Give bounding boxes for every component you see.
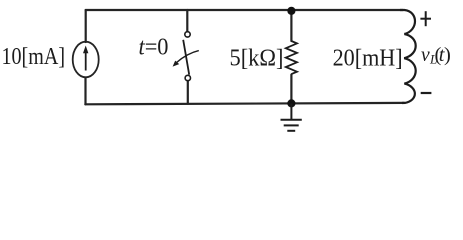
svg-text:10[mA]: 10[mA] [2,44,66,70]
resistor R1 zigzag [286,41,297,74]
minus sign [421,92,432,94]
junction dot bottom (node B) [287,99,295,107]
switch bottom terminal circle [185,75,190,80]
wire switch branch lower [187,81,189,104]
wire left branch lower [84,78,86,105]
switch actuation arrow arc [176,51,199,63]
inductor L1 coil [400,10,416,103]
svg-text:): ) [444,44,451,66]
wire switch branch upper [186,10,188,32]
switch top terminal circle [185,32,190,37]
wire top rail [86,9,403,11]
svg-text:20[mH]: 20[mH] [333,45,403,71]
ground [281,103,302,130]
wire bottom rail [85,103,404,104]
wire resistor branch lower [290,75,292,104]
switch SW1 t=0 [173,32,199,81]
current source I1 arrow [83,46,88,71]
current source I1 ellipse [73,42,99,78]
switch arrow head [173,61,180,67]
svg-text:5[kΩ]: 5[kΩ] [230,45,284,71]
switch blade [183,40,189,75]
svg-text:v: v [421,45,430,66]
plus sign [420,11,431,26]
svg-text:t=0: t=0 [139,35,169,61]
wire resistor branch upper [290,11,292,42]
wire left branch upper [85,10,87,42]
junction dot top (node A) [287,7,295,15]
